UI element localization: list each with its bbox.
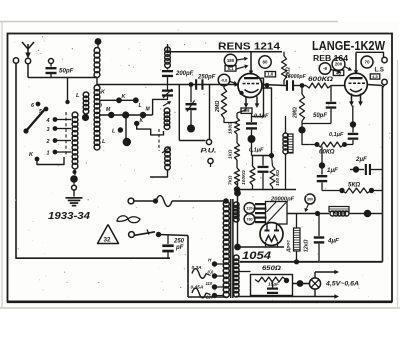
antenna: [22, 42, 34, 49]
tube V2 filament arrow right: [360, 94, 362, 103]
svg-text:32: 32: [104, 237, 112, 244]
svg-text:4: 4: [46, 118, 50, 124]
junction dot 155 right: [269, 153, 274, 158]
terminal LS lower: [382, 79, 387, 84]
junction dot below cap: [248, 135, 256, 143]
arrow 300 to wire: [306, 204, 308, 209]
junction dot top of aerial coil: [95, 38, 102, 45]
capacitor 1uF: [319, 162, 325, 168]
tap dot H: [212, 261, 217, 266]
junction dot HT a: [234, 190, 241, 197]
meter box 4.5 LS: [370, 74, 380, 79]
svg-text:250pF: 250pF: [197, 75, 216, 81]
svg-text:0,1µF: 0,1µF: [329, 132, 344, 138]
coil aerial primary: [94, 48, 100, 54]
junction dot 2M bottom: [301, 121, 303, 127]
junction dot coil bottom: [70, 175, 78, 183]
svg-text:L: L: [139, 103, 142, 109]
svg-text:2: 2: [46, 139, 50, 145]
capacitor 15uF: [267, 288, 278, 290]
contact dot L mid: [118, 127, 123, 132]
svg-text:4µF: 4µF: [327, 238, 339, 245]
svg-text:600КΩ: 600КΩ: [308, 76, 333, 83]
terminal antenna post: [25, 58, 30, 63]
wire trimmer down: [190, 110, 192, 125]
svg-text:7КΩ: 7КΩ: [228, 175, 234, 185]
wire K bracket: [37, 157, 64, 165]
resistor 600K grid: [306, 83, 331, 88]
tube V3 anode stubs: [266, 224, 268, 230]
svg-text:4,5V~0,6A: 4,5V~0,6A: [325, 281, 359, 288]
wire node row 155: [252, 155, 272, 157]
svg-text:3: 3: [47, 127, 50, 133]
voltage bubble 180: [224, 54, 236, 66]
wire antenna horizontal: [28, 77, 97, 79]
meter box 5.1: [225, 66, 236, 72]
meter box 1.6: [265, 72, 276, 77]
wire plate lead: [252, 78, 264, 116]
switch contact 2: [53, 138, 58, 143]
junction dot below L1: [82, 114, 89, 121]
capacitor 200pF: [167, 68, 169, 70]
svg-text:1.6: 1.6: [267, 72, 273, 77]
svg-text:L: L: [102, 139, 106, 145]
capacitor 250pF mains: [167, 235, 169, 244]
switch contact 6: [36, 102, 41, 107]
resistor 2M grid leak: [221, 88, 226, 118]
voice coil symbol: [117, 216, 128, 222]
scan edge left: [1, 22, 3, 309]
tube V3 1054 envelope: [260, 223, 283, 246]
svg-text:pF: pF: [175, 245, 184, 251]
wire fuse to transformer: [172, 200, 227, 202]
junction dot row1 a: [116, 97, 122, 103]
arrow -9: [331, 70, 338, 72]
svg-text:5.1: 5.1: [228, 66, 234, 71]
wire mains vertical: [187, 236, 189, 298]
rail right vertical: [382, 86, 384, 262]
voltage bubble 200: [332, 58, 345, 71]
wire below lower coil: [150, 170, 168, 177]
triangle 32: [98, 225, 119, 244]
resistor chain 7K: [236, 160, 238, 168]
bus anode bottom: [237, 189, 296, 191]
scan edge right: [397, 60, 399, 308]
capacitor 50pF antenna series: [49, 59, 54, 64]
wire top to LS: [356, 52, 384, 57]
switch contact 1: [53, 150, 58, 155]
wire cap to dot: [251, 130, 253, 136]
voltage bubble 70: [361, 56, 373, 68]
border frame bottom emphasis: [7, 300, 392, 303]
transformer core: [230, 199, 232, 298]
svg-text:L: L: [76, 93, 80, 99]
svg-text:220: 220: [246, 206, 252, 210]
wire fuse line: [134, 200, 155, 202]
resistor 100K first: [252, 156, 254, 167]
wire K mid route: [137, 126, 164, 135]
voltage bubble 220: [244, 203, 255, 214]
transformer secondary upper: [234, 202, 239, 207]
junction dot row2 b: [140, 112, 146, 118]
svg-text:70: 70: [364, 60, 370, 65]
wire cap to resistor: [292, 85, 306, 87]
capacitor 2uF: [353, 166, 359, 172]
tube V1 filament arrow right: [256, 97, 258, 105]
meter box 3.9: [241, 108, 252, 113]
junction dot top of RF coil: [167, 44, 169, 47]
capacitor 16000pF series: [286, 80, 288, 91]
junction dot row1 b: [133, 97, 139, 103]
junction dot 60K right: [342, 142, 347, 147]
resistor 60K: [315, 142, 320, 147]
svg-text:45: 45: [336, 70, 341, 75]
scan edge top: [0, 21, 338, 23]
trimmer capacitor volume: [190, 85, 192, 103]
tube V1 cathode dot: [239, 91, 243, 95]
wire choke feed: [288, 213, 330, 215]
tube V1 anode: [244, 77, 258, 79]
coil secondary tall: [94, 85, 100, 91]
coil L2 band: [72, 112, 78, 118]
capacitor 4uF filter: [318, 214, 320, 237]
resistor chain 1K: [236, 134, 238, 143]
wire volume drop left: [178, 85, 180, 141]
wire center drop: [125, 115, 127, 139]
resistor 100K second: [270, 166, 275, 187]
svg-text:5КΩ: 5КΩ: [348, 182, 360, 189]
resistor 2M right: [300, 83, 305, 88]
junction dot on grid line: [189, 82, 194, 87]
junction dot choke feed: [315, 211, 320, 216]
wire dot down: [251, 142, 253, 156]
resistor 2K screen: [282, 56, 287, 80]
svg-text:2µF: 2µF: [355, 156, 367, 163]
arrow 200: [345, 67, 349, 69]
wire switch to right: [159, 235, 189, 236]
svg-text:L.S: L.S: [375, 68, 384, 74]
coil L1 antenna: [83, 92, 89, 98]
rheostat box: [251, 275, 293, 296]
switch contact 5: [44, 107, 49, 112]
svg-text:50pF: 50pF: [313, 113, 327, 119]
capacitor 0.1uF cathode: [350, 121, 356, 127]
svg-text:180: 180: [227, 58, 235, 63]
tube V2 anode: [350, 77, 363, 79]
svg-text:Дрос: Дрос: [286, 240, 292, 253]
wire filament to cathode network: [352, 106, 353, 122]
terminal PU top: [209, 85, 211, 140]
junction below coil L2: [74, 169, 76, 175]
junction dot lamp left: [297, 280, 304, 287]
wire chain top to filament: [245, 108, 247, 111]
svg-text:1µF: 1µF: [327, 167, 338, 174]
dashed coupling line mid: [158, 129, 160, 151]
wire aerial coil to grid line: [96, 78, 98, 85]
svg-text:0,1µF: 0,1µF: [254, 114, 269, 120]
border frame: [8, 34, 393, 302]
wire tap row 2: [99, 114, 153, 116]
fuse holder terminal: [128, 198, 134, 204]
title underline: [217, 51, 282, 53]
tube V3 filament M: [266, 236, 278, 242]
tube V1 RENS1214 envelope: [238, 74, 262, 98]
tube V1 cathode arc: [245, 89, 259, 92]
terminal PU bottom: [208, 158, 213, 163]
coil oscillator with arrow: [163, 103, 168, 106]
wire mains bottom to transformer: [188, 296, 227, 298]
svg-text:2МΩ: 2МΩ: [293, 107, 299, 119]
capacitor block 20000pF stack: [255, 203, 265, 205]
svg-text:50pF: 50pF: [59, 68, 74, 75]
tube V2 top lead: [355, 52, 357, 71]
svg-text:-0,8: -0,8: [221, 78, 228, 82]
svg-text:650Ω: 650Ω: [262, 266, 281, 272]
switch contact 4: [53, 117, 58, 122]
filament feed arrow top: [315, 271, 336, 273]
arrow 180 to tube: [237, 59, 244, 60]
terminal ground post: [13, 58, 18, 63]
junction dot row2 a: [108, 112, 114, 118]
coil RF transformer top: [165, 47, 171, 53]
wire node to 60K: [302, 133, 316, 145]
svg-text:200: 200: [335, 62, 343, 67]
svg-text:100 КΩ: 100 КΩ: [275, 170, 281, 186]
tap dot 220: [212, 293, 217, 298]
wire tap row 1: [99, 99, 136, 101]
svg-text:80: 80: [263, 60, 268, 65]
wire HT drop: [237, 182, 239, 247]
capacitor 50pF right: [330, 86, 332, 102]
svg-text:180Ω: 180Ω: [228, 122, 234, 134]
svg-text:16000pF: 16000pF: [285, 74, 307, 80]
capacitor 250pF series grid: [195, 79, 197, 90]
tube V2 REB164 envelope: [345, 73, 368, 96]
wire plate V1 to grid V2: [262, 85, 286, 86]
tube V1 top cap lead: [250, 52, 252, 72]
svg-text:220: 220: [205, 295, 214, 300]
svg-text:12кΩ: 12кΩ: [304, 240, 310, 252]
wire secondary to rheostat: [236, 271, 251, 273]
svg-text:L: L: [112, 129, 115, 135]
tube V2 filament arrow left: [351, 94, 353, 103]
trimmer capacitor below 200pF: [162, 90, 173, 92]
svg-text:1КΩ: 1КΩ: [228, 149, 234, 159]
voltage bubble -0.8: [218, 74, 230, 86]
transformer secondary lower: [234, 255, 239, 260]
wire filament bottom: [236, 296, 315, 298]
junction dot plate node: [265, 83, 270, 88]
svg-text:-9: -9: [323, 66, 328, 71]
terminal LS upper: [382, 57, 387, 62]
lamp dial: [309, 278, 320, 289]
terminal small: [73, 182, 75, 185]
coil tracking lower: [165, 147, 171, 153]
tube V1 grid lead arrow: [235, 82, 240, 86]
switch contact 3: [53, 126, 58, 131]
rectifier box with diagonals: [266, 202, 288, 225]
dashed coupling line left: [65, 112, 67, 157]
fuse squiggle mains: [156, 196, 172, 207]
svg-text:2МΩ: 2МΩ: [215, 101, 221, 113]
tube V2 grid dashes: [349, 83, 352, 85]
voltage bubble -9: [319, 63, 331, 75]
resistor chain 180ohm: [236, 113, 238, 118]
junction dot field right: [364, 210, 372, 218]
wire 2M bottom: [224, 118, 237, 123]
capacitor 0.1uF anode: [251, 113, 253, 122]
scan edge bottom: [0, 307, 400, 309]
voltage bubble 80: [259, 56, 271, 68]
wire ground bus left: [16, 63, 170, 258]
tap dot 110: [212, 273, 217, 278]
svg-text:1: 1: [47, 151, 50, 157]
contact dot K mid: [134, 121, 139, 126]
svg-text:100КΩ: 100КΩ: [241, 170, 247, 185]
arrow box to tube: [237, 67, 245, 69]
arrow on lower coil: [162, 149, 168, 153]
wire lamp vertical: [314, 272, 316, 278]
junction dot row2 center: [122, 111, 129, 118]
scan speckle noise: [14, 30, 390, 304]
transformer primary winding: [223, 201, 229, 207]
wire to PU terminal: [179, 140, 205, 142]
voltage bubble 780: [244, 214, 255, 225]
rheostat resistor: [255, 277, 286, 282]
wire antenna down: [27, 64, 29, 78]
junction dot HT b: [234, 244, 241, 251]
svg-text:780: 780: [246, 217, 252, 221]
svg-text:0,1µF: 0,1µF: [249, 148, 264, 154]
wire stub down from antenna wire: [67, 78, 69, 103]
svg-text:1054: 1054: [242, 250, 271, 262]
wire main grid line: [97, 84, 240, 86]
tap dot 125: [212, 284, 217, 289]
meter box 45: [333, 70, 344, 75]
filament feed arrow bottom: [315, 296, 336, 298]
wire rheostat to lamp: [293, 283, 310, 285]
resistor 5K: [322, 190, 341, 192]
svg-text:200pF: 200pF: [175, 71, 194, 77]
svg-text:110: 110: [206, 281, 213, 286]
wire coil to grid cap line: [168, 47, 252, 52]
arrow -0.8 to tube: [230, 82, 234, 83]
wire 50pF to node: [302, 123, 331, 125]
bus B minus bottom: [240, 261, 383, 263]
choke 12K vertical: [296, 214, 298, 229]
junction dot big volume: [187, 125, 195, 133]
wire choke to dot: [349, 213, 365, 215]
junction dot bus left: [234, 186, 240, 192]
capacitor 0.1uF second: [262, 156, 264, 166]
svg-text:1933-34: 1933-34: [48, 211, 91, 222]
svg-text:h: h: [99, 103, 102, 109]
tube V2 cathode arc: [350, 89, 362, 92]
svg-text:P.U.: P.U.: [201, 148, 217, 155]
wire V3 filament row: [238, 246, 285, 248]
voltage bubble 300: [305, 194, 315, 204]
svg-text:4,5: 4,5: [372, 74, 378, 79]
mains switch: [129, 232, 135, 238]
choke speaker field: [329, 207, 349, 212]
choke HF column: [285, 116, 287, 133]
switch arm: [26, 109, 45, 131]
wire 600K to grid: [331, 85, 345, 87]
junction dot rheostat right: [284, 278, 289, 283]
junction dot center big: [123, 138, 131, 146]
wire to ground: [73, 190, 75, 197]
tube V1 filament arrow left: [245, 97, 247, 105]
wire plate V2 to rail: [367, 85, 382, 86]
tube V1 grid dashes: [243, 83, 246, 85]
wire row2 to oscillator coil: [153, 99, 168, 115]
svg-text:15µF: 15µF: [268, 282, 280, 288]
svg-text:LANGE-1K2W: LANGE-1K2W: [312, 39, 385, 53]
svg-text:250: 250: [173, 239, 185, 245]
wire screen lead: [262, 88, 272, 156]
svg-text:300: 300: [307, 197, 313, 201]
svg-text:RENS 1214: RENS 1214: [218, 41, 280, 53]
ground symbol: [66, 197, 83, 199]
